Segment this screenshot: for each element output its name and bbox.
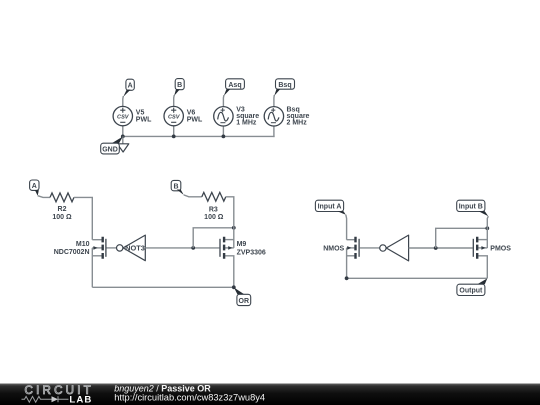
node Asq flag <box>224 79 245 96</box>
node junction V3 <box>222 135 226 139</box>
wire bus from GND to Bsq source <box>123 135 274 137</box>
node junction at GND <box>121 135 125 139</box>
svg-text:100 Ω: 100 Ω <box>52 214 72 221</box>
svg-text:PWL: PWL <box>187 116 203 123</box>
node B flag (top) <box>174 79 184 96</box>
svg-text:OR: OR <box>239 298 250 305</box>
svg-text:Input B: Input B <box>459 204 483 211</box>
wire inverter input to PMOS gate <box>409 247 473 249</box>
svg-text:CSV: CSV <box>117 115 130 121</box>
node junction NOT3 input <box>191 246 195 250</box>
svg-text:M10: M10 <box>76 241 90 248</box>
node OR flag <box>234 288 251 306</box>
wire Input A to NMOS drain <box>345 215 348 240</box>
node junction inverter input <box>434 246 438 250</box>
node A flag (left) <box>30 180 39 196</box>
wire branch to Input B node <box>436 228 488 248</box>
wire Bsq top <box>273 96 275 107</box>
svg-text:A: A <box>128 83 133 90</box>
svg-text:PWL: PWL <box>136 116 152 123</box>
transistor NMOS <box>323 237 379 279</box>
voltage source V3 <box>214 106 260 126</box>
wire V6 top <box>173 96 175 107</box>
wire R2 to M10 drain <box>74 197 92 239</box>
svg-text:LAB: LAB <box>69 394 92 405</box>
voltage source V5 <box>113 106 152 125</box>
wire A to R2 <box>38 196 50 198</box>
svg-text:NMOS: NMOS <box>323 245 344 252</box>
wire NOT3 input to M9 gate <box>145 247 219 249</box>
svg-text:NDC7002N: NDC7002N <box>54 249 90 256</box>
node Input B flag <box>457 200 489 216</box>
wire V5 bottom <box>122 126 124 137</box>
node Input A flag <box>315 200 345 215</box>
node junction bottom rail <box>345 276 349 280</box>
wire bottom rail to OR <box>92 286 234 288</box>
svg-text:100 Ω: 100 Ω <box>204 214 224 221</box>
inverter NOT3 <box>117 235 146 261</box>
node junction Input B <box>485 226 489 230</box>
svg-text:R2: R2 <box>58 206 67 213</box>
wire V6 bottom <box>173 126 175 137</box>
svg-text:Bsq: Bsq <box>278 82 291 89</box>
ground <box>101 136 129 154</box>
node B flag (left) <box>171 180 184 195</box>
resistor R3 <box>202 192 226 221</box>
svg-text:CSV: CSV <box>168 115 181 121</box>
node junction V6 <box>172 135 176 139</box>
wire R3 to node <box>226 197 234 248</box>
svg-text:V6: V6 <box>187 109 196 116</box>
node A flag (top) <box>123 79 134 97</box>
node Output flag <box>457 278 487 295</box>
voltage source V6 <box>164 106 203 125</box>
logo resistor-diode squiggle <box>22 396 52 402</box>
wire Input B to PMOS source <box>487 216 488 248</box>
svg-text:A: A <box>32 183 37 190</box>
svg-text:V5: V5 <box>136 109 145 116</box>
svg-text:NOT3: NOT3 <box>125 244 145 253</box>
svg-text:Asq: Asq <box>228 82 241 89</box>
transistor M9 <box>220 237 266 288</box>
svg-text:B: B <box>173 183 178 190</box>
wire V3 top <box>222 96 224 107</box>
resistor R2 <box>50 193 74 221</box>
svg-text:http://circuitlab.com/cw83z3z7: http://circuitlab.com/cw83z3z7wu8y4 <box>114 393 265 403</box>
svg-text:2 MHz: 2 MHz <box>287 119 308 126</box>
svg-text:M9: M9 <box>237 241 247 248</box>
wire V3 bottom <box>222 126 224 136</box>
svg-text:1 MHz: 1 MHz <box>236 119 257 126</box>
inverter U1 <box>380 235 409 261</box>
svg-text:Input A: Input A <box>318 204 342 211</box>
transistor PMOS <box>473 237 511 279</box>
wire branch to R3 node <box>193 228 234 248</box>
svg-text:GND: GND <box>102 146 118 153</box>
node junction OR <box>232 285 236 289</box>
wire B to R3 <box>184 195 202 197</box>
svg-text:Output: Output <box>459 288 483 295</box>
node Bsq flag <box>274 79 294 96</box>
wire Bsq bottom <box>273 126 275 136</box>
node junction R3 bottom <box>232 226 236 230</box>
voltage source Bsq <box>264 106 309 126</box>
svg-text:B: B <box>177 82 182 89</box>
svg-text:PMOS: PMOS <box>490 245 511 252</box>
wire bottom rail NMOS to PMOS <box>347 277 488 279</box>
svg-text:ZVP3306: ZVP3306 <box>237 250 266 257</box>
svg-text:R3: R3 <box>209 206 218 213</box>
transistor M10 <box>54 237 117 288</box>
junction dots on bus <box>121 135 225 139</box>
wire V5 top <box>122 97 124 107</box>
